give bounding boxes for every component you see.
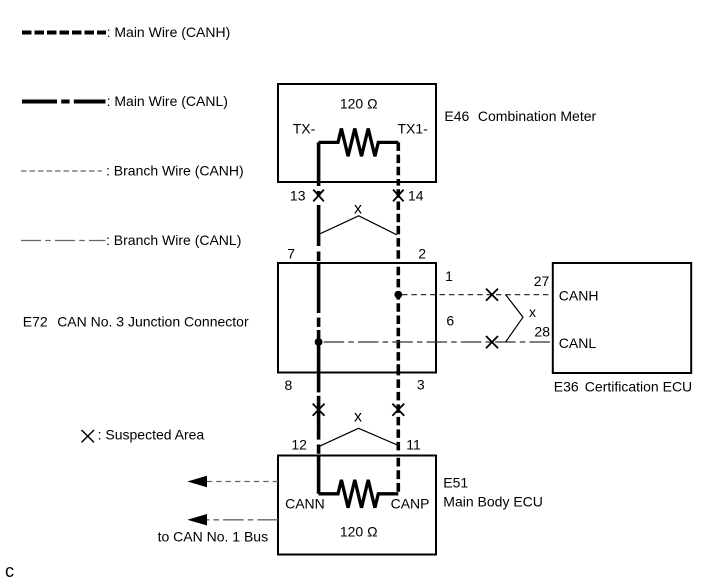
svg-text:27: 27 — [534, 273, 550, 289]
svg-text:2: 2 — [418, 246, 426, 262]
svg-text:x: x — [354, 409, 362, 426]
svg-text:120 Ω: 120 Ω — [340, 523, 378, 539]
svg-text:x: x — [354, 200, 362, 217]
svg-text:x: x — [529, 304, 536, 320]
svg-text:13: 13 — [290, 188, 306, 204]
svg-text:CANP: CANP — [391, 495, 430, 511]
svg-text:3: 3 — [417, 377, 425, 393]
svg-text:14: 14 — [408, 188, 424, 204]
svg-text:28: 28 — [534, 323, 550, 339]
svg-text:Main Body ECU: Main Body ECU — [443, 494, 543, 510]
svg-text:7: 7 — [287, 246, 295, 262]
svg-text:TX1-: TX1- — [398, 121, 429, 137]
svg-text:Certification ECU: Certification ECU — [585, 379, 692, 395]
svg-text:: Branch Wire (CANL): : Branch Wire (CANL) — [106, 232, 241, 248]
svg-text:CANH: CANH — [559, 288, 599, 304]
svg-text:11: 11 — [406, 436, 421, 452]
svg-text:1: 1 — [445, 268, 453, 284]
svg-text:120 Ω: 120 Ω — [340, 96, 378, 112]
svg-text:CAN No. 3 Junction Connector: CAN No. 3 Junction Connector — [57, 314, 249, 330]
svg-text:Combination Meter: Combination Meter — [478, 108, 597, 124]
svg-text:E72: E72 — [23, 314, 48, 330]
svg-text:: Suspected Area: : Suspected Area — [98, 427, 205, 443]
svg-text:c: c — [5, 561, 14, 581]
svg-text:: Main Wire (CANH): : Main Wire (CANH) — [107, 24, 231, 40]
svg-text:: Branch Wire (CANH): : Branch Wire (CANH) — [106, 162, 244, 178]
svg-text:CANL: CANL — [559, 335, 597, 351]
svg-text:6: 6 — [446, 313, 454, 329]
svg-text:: Main Wire (CANL): : Main Wire (CANL) — [107, 93, 228, 109]
svg-text:CANN: CANN — [285, 495, 325, 511]
svg-text:E36: E36 — [554, 379, 579, 395]
svg-text:E51: E51 — [443, 475, 468, 491]
svg-text:12: 12 — [291, 436, 307, 452]
svg-text:to CAN No. 1 Bus: to CAN No. 1 Bus — [158, 529, 269, 545]
svg-text:E46: E46 — [444, 108, 469, 124]
svg-text:8: 8 — [285, 377, 293, 393]
svg-text:TX-: TX- — [293, 121, 316, 137]
